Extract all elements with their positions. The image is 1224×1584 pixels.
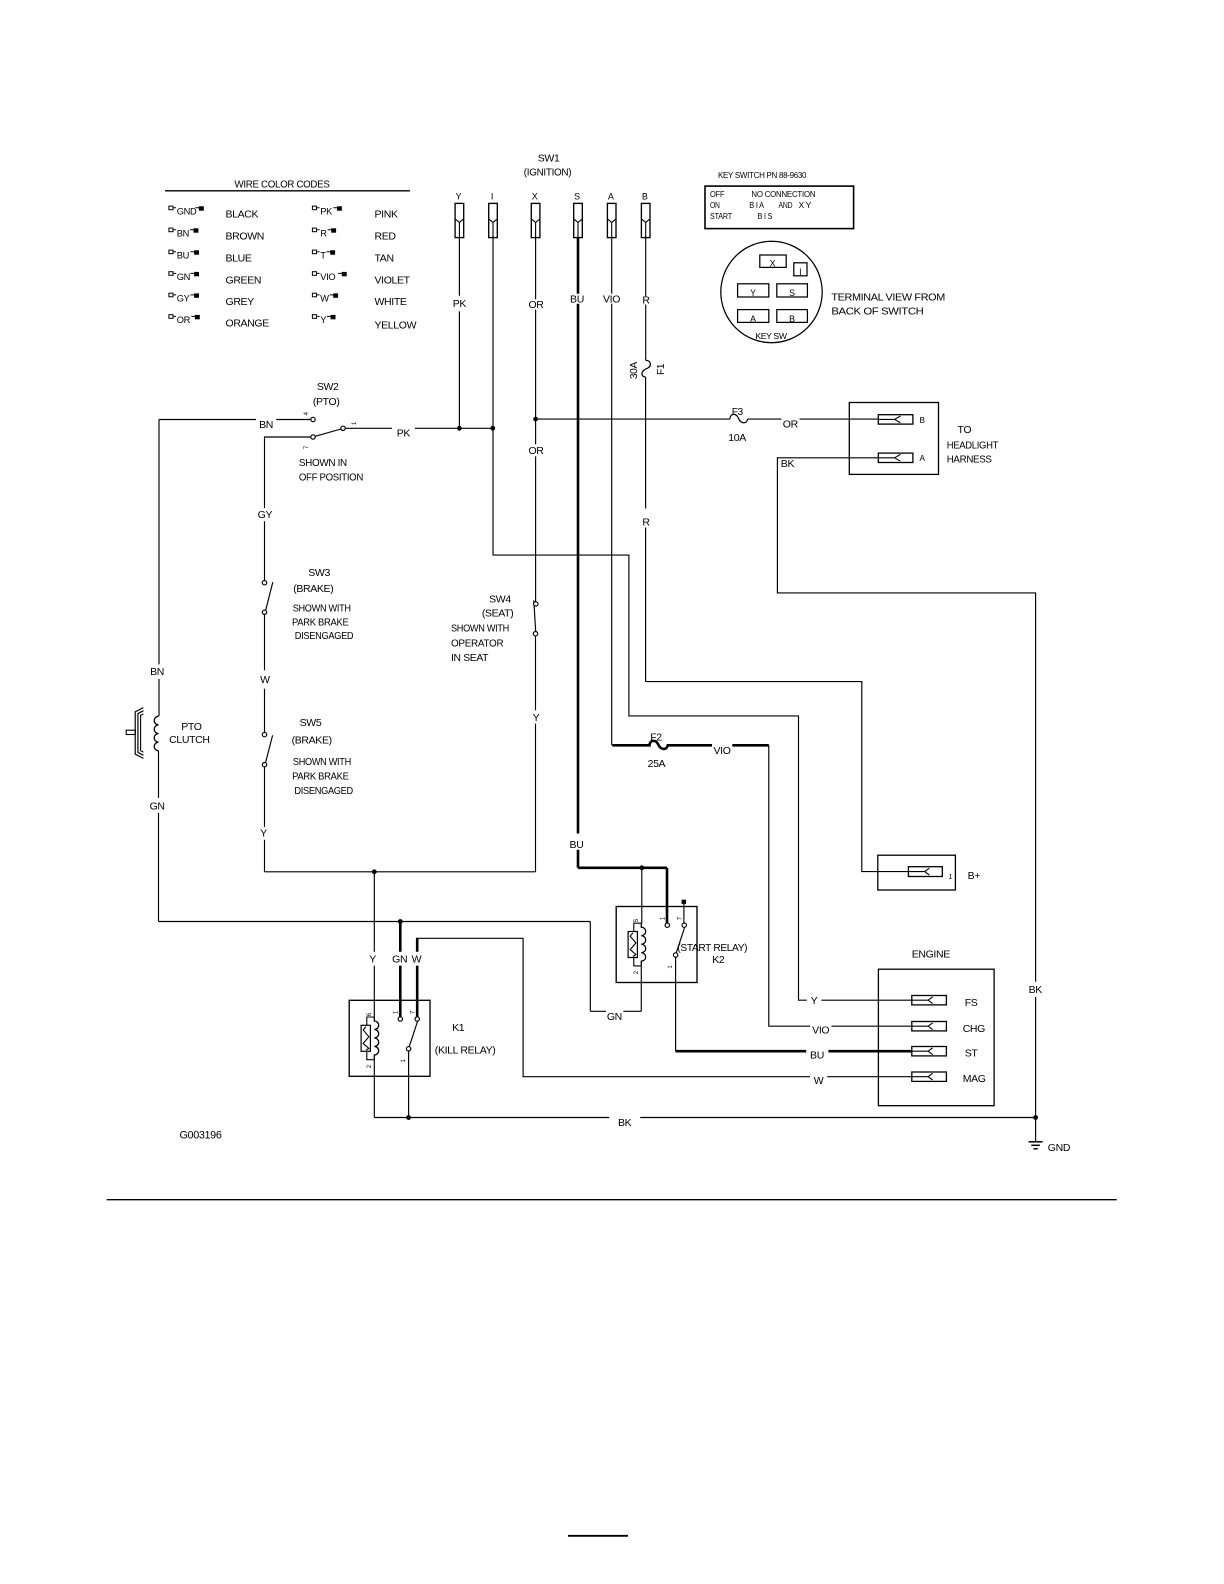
svg-text:GREY: GREY — [226, 296, 255, 308]
wire K2 lower contact to ST run — [675, 957, 677, 1051]
svg-text:B+: B+ — [968, 870, 981, 882]
wire BK wire headlight A to ground bus — [777, 458, 1035, 1118]
legend entry VIO = VIOLET — [312, 272, 346, 282]
switch SW2 pin numbers — [304, 411, 358, 449]
footer page-number underline — [568, 1535, 628, 1537]
svg-text:F3: F3 — [732, 407, 744, 418]
legend entry T = TAN — [312, 250, 334, 260]
svg-text:1: 1 — [949, 872, 953, 881]
switch SW2 contacts and blade — [311, 417, 345, 439]
wire BU wire K2 to engine ST — [676, 1050, 912, 1053]
junction BK junction at K1 contact — [406, 1115, 411, 1120]
svg-text:RED: RED — [375, 231, 397, 243]
wire R lead from SW1 pin B — [645, 238, 647, 361]
wire W wire K1 right contact riser — [416, 938, 419, 1017]
legend entry BU = BLUE — [169, 250, 199, 260]
svg-text:ST: ST — [965, 1048, 979, 1060]
svg-text:GY: GY — [258, 509, 273, 521]
svg-text:(SEAT): (SEAT) — [482, 607, 514, 619]
svg-text:F2: F2 — [650, 731, 662, 743]
wire R wire below F1 — [645, 377, 647, 681]
svg-text:PK: PK — [320, 206, 333, 216]
wire R wire to B+ terminal — [646, 682, 909, 872]
svg-text:A: A — [750, 314, 756, 324]
wire GN bus bottom — [159, 922, 642, 1012]
svg-text:OFF POSITION: OFF POSITION — [299, 471, 363, 483]
svg-text:NO CONNECTION: NO CONNECTION — [751, 190, 815, 199]
key switch terminal X — [760, 255, 786, 269]
key switch terminal I — [794, 263, 807, 277]
junction BK junction at ground — [1033, 1115, 1038, 1120]
svg-text:GND: GND — [177, 206, 197, 216]
svg-text:TO: TO — [958, 424, 972, 436]
svg-text:A: A — [608, 191, 614, 201]
ground symbol GND — [1029, 1118, 1043, 1149]
wire GN wire to K1 left contact — [399, 922, 402, 1017]
svg-text:W: W — [320, 294, 329, 304]
svg-text:Y: Y — [750, 288, 756, 298]
svg-text:B: B — [642, 191, 648, 201]
svg-text:BROWN: BROWN — [226, 231, 265, 243]
svg-text:Y: Y — [260, 827, 267, 839]
wire VIO lead from SW1 pin A — [611, 238, 613, 746]
svg-text:BU: BU — [177, 250, 189, 260]
svg-text:HARNESS: HARNESS — [947, 454, 992, 466]
svg-text:30A: 30A — [629, 362, 640, 380]
junction BU junction to K2 coil — [639, 865, 644, 870]
svg-text:SHOWN WITH: SHOWN WITH — [293, 603, 351, 615]
svg-text:VIO: VIO — [320, 272, 335, 282]
svg-text:B: B — [789, 314, 795, 324]
svg-text:CLUTCH: CLUTCH — [169, 734, 210, 746]
relay K1 (kill relay) pin numbers — [367, 1010, 417, 1068]
wire OR lead from SW1 pin X — [535, 238, 537, 420]
key switch terminal Y — [738, 284, 769, 298]
K2 right contact stub terminal — [682, 900, 686, 923]
svg-text:T: T — [320, 250, 326, 260]
wire GN wire PTO clutch down — [158, 751, 160, 922]
connector: to headlight harness box — [849, 403, 938, 475]
svg-text:X: X — [770, 259, 776, 269]
svg-text:PTO: PTO — [181, 721, 202, 733]
junction PK / pin-Y junction — [457, 426, 462, 431]
svg-text:GND: GND — [1048, 1142, 1071, 1154]
svg-text:VIO: VIO — [812, 1024, 829, 1036]
svg-text:SHOWN WITH: SHOWN WITH — [293, 756, 351, 768]
svg-text:Y: Y — [320, 315, 326, 325]
PTO clutch coil — [154, 716, 158, 751]
svg-text:W: W — [412, 953, 422, 965]
relay K2 (start relay) pin numbers — [634, 916, 684, 974]
fuse F3 10A — [730, 414, 748, 422]
wire BK bottom bus — [374, 1117, 1035, 1119]
switch SW3 contacts and blade — [262, 581, 273, 615]
svg-text:X: X — [532, 191, 538, 201]
svg-text:BN: BN — [177, 228, 189, 238]
wire K1 lower contact to BK bus — [408, 1051, 410, 1118]
wire PK lead from SW1 pin Y — [458, 238, 460, 429]
svg-text:GY: GY — [177, 294, 190, 304]
wire OR wire X-junction to SW4 — [535, 419, 537, 602]
key switch table text — [710, 190, 816, 221]
svg-text:Y: Y — [811, 995, 818, 1007]
svg-text:W: W — [814, 1075, 824, 1087]
svg-text:DISENGAGED: DISENGAGED — [295, 630, 354, 642]
svg-text:SW2: SW2 — [317, 381, 339, 393]
junction Y bus junction to K1 — [372, 869, 377, 874]
switch SW5 contacts and blade — [262, 732, 272, 767]
svg-text:Y: Y — [456, 191, 462, 201]
svg-text:CHG: CHG — [963, 1023, 985, 1035]
switch SW4 contacts and blade — [533, 600, 538, 636]
svg-text:SW1: SW1 — [538, 153, 560, 165]
svg-text:WIRE COLOR CODES: WIRE COLOR CODES — [235, 179, 330, 191]
relay K1 (kill relay) box — [349, 1000, 430, 1076]
wire OR wire from F3 to headlight connector — [748, 418, 879, 420]
svg-text:BACK OF SWITCH: BACK OF SWITCH — [831, 306, 923, 318]
svg-text:Y: Y — [533, 712, 540, 724]
junction OR junction at pin X wire — [533, 417, 538, 422]
key switch terminal B — [777, 310, 808, 324]
svg-text:SW5: SW5 — [300, 717, 322, 729]
fuse F1 30A — [642, 360, 650, 377]
legend entry W = WHITE — [312, 293, 337, 303]
relay K1 (kill relay) coil — [374, 1017, 378, 1059]
legend entry GY = GREY — [169, 293, 199, 303]
svg-text:DISENGAGED: DISENGAGED — [294, 785, 353, 797]
wire BU lead from SW1 pin S — [577, 238, 580, 868]
svg-text:WHITE: WHITE — [375, 296, 407, 308]
svg-text:(KILL RELAY): (KILL RELAY) — [435, 1045, 496, 1057]
wire W wire SW3 to SW5 — [264, 615, 266, 733]
svg-text:R: R — [320, 228, 327, 238]
svg-text:G003196: G003196 — [180, 1129, 222, 1141]
svg-text:PK: PK — [397, 428, 411, 440]
svg-text:OR: OR — [528, 445, 544, 457]
svg-text:VIOLET: VIOLET — [375, 274, 411, 286]
svg-text:START: START — [710, 212, 732, 221]
wire BN wire into SW2 — [159, 419, 311, 421]
svg-text:10A: 10A — [728, 432, 746, 444]
junction GN bus junction to K1 — [398, 919, 403, 924]
wire OR wire from X junction to F3 — [536, 418, 730, 420]
B+ terminal box — [878, 855, 956, 890]
svg-text:IN SEAT: IN SEAT — [451, 652, 489, 664]
key switch state table box — [705, 186, 854, 229]
relay K2 (start relay) box — [616, 907, 697, 983]
junction PK / pin-I junction — [490, 426, 495, 431]
svg-text:GREEN: GREEN — [226, 274, 262, 286]
svg-text:SW3: SW3 — [308, 567, 330, 579]
svg-text:ON: ON — [710, 201, 720, 210]
svg-text:I: I — [799, 267, 801, 277]
engine terminal MAG — [912, 1072, 947, 1081]
relay K1 (kill relay) coil suppression resistor — [361, 1017, 374, 1060]
svg-text:BK: BK — [781, 458, 795, 470]
svg-text:25A: 25A — [648, 758, 666, 770]
svg-text:OFF: OFF — [710, 190, 725, 199]
svg-text:TERMINAL VIEW FROM: TERMINAL VIEW FROM — [831, 291, 945, 303]
engine terminal FS — [912, 996, 947, 1005]
footer separator line — [107, 1199, 1117, 1201]
svg-text:FS: FS — [965, 997, 978, 1009]
wire BN wire left riser — [158, 420, 160, 717]
PTO clutch plates — [126, 708, 143, 759]
headlight connector terminal A — [878, 453, 913, 462]
svg-text:A: A — [920, 454, 926, 463]
svg-text:B I S: B I S — [758, 212, 773, 221]
relay K1 (kill relay) contacts and blade — [398, 1017, 419, 1051]
svg-text:KEY SW: KEY SW — [755, 331, 787, 341]
svg-text:K1: K1 — [452, 1022, 465, 1034]
wire lead from SW1 pin I — [492, 238, 494, 429]
svg-text:SW4: SW4 — [489, 594, 511, 606]
svg-text:GN: GN — [150, 801, 165, 813]
fuse F2 25A — [612, 741, 712, 749]
svg-text:R: R — [642, 295, 650, 307]
svg-text:ORANGE: ORANGE — [226, 317, 270, 329]
engine terminal CHG — [912, 1022, 947, 1031]
svg-text:(BRAKE): (BRAKE) — [292, 735, 332, 747]
svg-text:OR: OR — [177, 315, 191, 325]
svg-text:GN: GN — [607, 1011, 622, 1023]
svg-text:ENGINE: ENGINE — [912, 949, 951, 961]
ENGINE box — [878, 969, 994, 1105]
svg-text:F1: F1 — [656, 363, 667, 375]
svg-text:HEADLIGHT: HEADLIGHT — [947, 439, 999, 451]
relay K2 (start relay) coil — [641, 923, 645, 965]
svg-text:VIO: VIO — [713, 745, 730, 757]
legend entry Y = YELLOW — [312, 315, 335, 325]
svg-text:GN: GN — [177, 272, 190, 282]
B+ terminal fork — [908, 867, 942, 877]
svg-text:(START RELAY): (START RELAY) — [677, 942, 747, 954]
wire W wire K1 to engine MAG — [416, 938, 912, 1076]
wire Y wire junction down to K1 coil — [373, 872, 375, 1017]
svg-text:(IGNITION): (IGNITION) — [524, 167, 571, 179]
svg-text:PARK BRAKE: PARK BRAKE — [292, 770, 349, 782]
svg-text:BLACK: BLACK — [226, 209, 259, 221]
wire Y wire below SW5 — [264, 767, 266, 872]
svg-text:X Y: X Y — [799, 201, 812, 210]
relay K2 (start relay) coil suppression resistor — [628, 923, 641, 966]
key switch terminal-view circle — [721, 241, 822, 342]
legend entry R = RED — [312, 228, 335, 238]
legend entry GN = GREEN — [169, 272, 199, 282]
wire Y wire SW1 pin I to engine FS — [493, 428, 912, 1000]
engine terminal ST — [912, 1047, 947, 1056]
key switch terminal S — [777, 284, 808, 298]
svg-text:R: R — [642, 517, 650, 529]
svg-text:BU: BU — [570, 839, 584, 851]
svg-text:TAN: TAN — [375, 253, 394, 265]
svg-text:B: B — [920, 416, 926, 425]
svg-text:BLUE: BLUE — [226, 253, 252, 265]
svg-text:OPERATOR: OPERATOR — [451, 638, 504, 650]
headlight connector terminal B — [878, 415, 913, 424]
wire VIO wire F2 to corner — [732, 744, 769, 747]
svg-text:W: W — [260, 674, 270, 686]
svg-text:BU: BU — [810, 1050, 824, 1062]
svg-text:SHOWN IN: SHOWN IN — [299, 457, 347, 469]
svg-text:K2: K2 — [712, 954, 725, 966]
svg-text:BK: BK — [618, 1117, 632, 1129]
svg-text:KEY SWITCH PN 88-9630: KEY SWITCH PN 88-9630 — [718, 170, 807, 180]
key switch terminal A — [738, 310, 769, 324]
svg-text:(PTO): (PTO) — [313, 396, 340, 408]
svg-text:PINK: PINK — [375, 209, 398, 221]
svg-text:Y: Y — [369, 953, 376, 965]
svg-text:S: S — [789, 288, 795, 298]
svg-text:I: I — [491, 191, 493, 201]
svg-text:BN: BN — [259, 419, 273, 431]
wire K2 coil pin 5 feed — [641, 868, 643, 923]
relay K2 (start relay) contacts and blade — [665, 923, 686, 957]
wire BU bus to K2 — [578, 868, 667, 923]
svg-text:OR: OR — [528, 299, 544, 311]
wire VIO wire to engine CHG — [769, 745, 912, 1026]
svg-text:PARK BRAKE: PARK BRAKE — [292, 616, 349, 628]
wire Y bus SW5/SW4 bottom — [265, 871, 536, 873]
legend entry OR = ORANGE — [169, 315, 200, 325]
wire Y wire below SW4 — [535, 636, 537, 872]
wire PK wire from SW2 to junctions — [345, 427, 493, 429]
svg-text:BK: BK — [1029, 984, 1043, 996]
svg-text:OR: OR — [783, 418, 799, 430]
svg-text:MAG: MAG — [963, 1073, 986, 1085]
svg-text:B I A: B I A — [749, 201, 764, 210]
legend title underline — [165, 190, 410, 192]
legend entry GND = BLACK — [169, 206, 204, 216]
legend entry PK = PINK — [312, 206, 341, 216]
svg-text:S: S — [574, 191, 580, 201]
svg-text:GN: GN — [392, 953, 407, 965]
svg-text:AND: AND — [779, 201, 793, 210]
svg-text:SHOWN WITH: SHOWN WITH — [451, 622, 509, 634]
svg-text:YELLOW: YELLOW — [375, 320, 417, 332]
svg-text:PK: PK — [453, 298, 467, 310]
legend entry BN = BROWN — [169, 228, 198, 238]
svg-text:(BRAKE): (BRAKE) — [293, 583, 333, 595]
svg-text:BN: BN — [150, 666, 164, 678]
wire K1 coil pin 2 to BK bus — [373, 1059, 375, 1118]
wire GY wire SW2 to SW3 — [265, 437, 311, 581]
